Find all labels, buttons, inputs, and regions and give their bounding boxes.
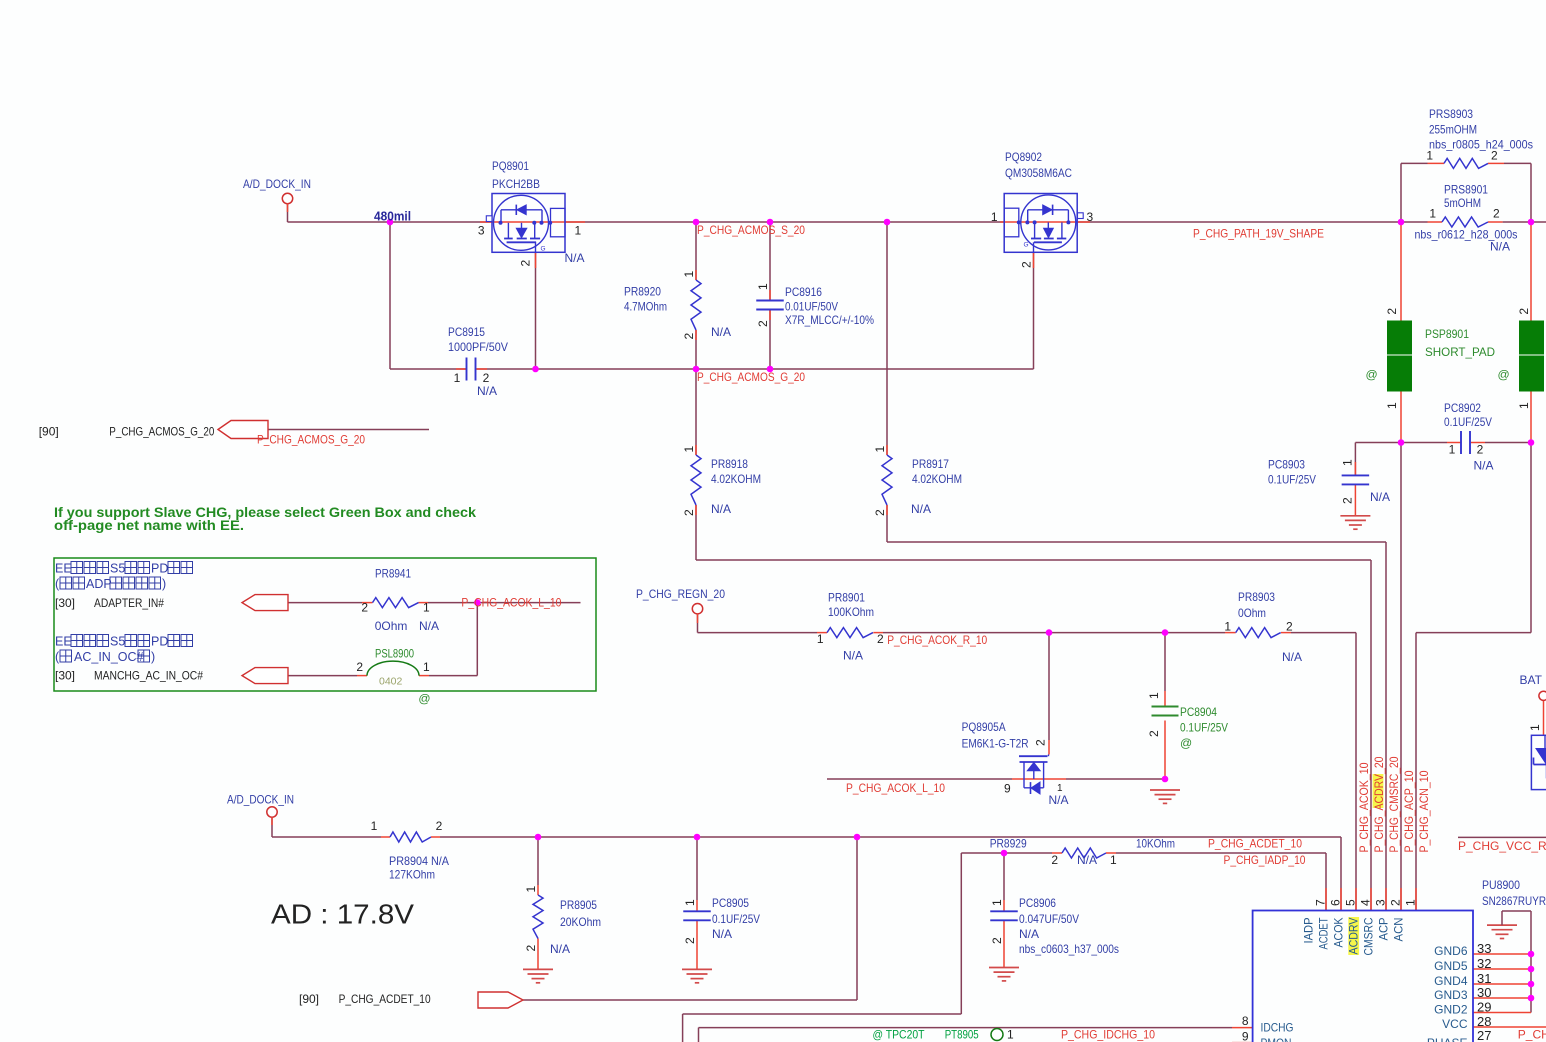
svg-text:5: 5 [1344,899,1358,906]
svg-text:2: 2 [436,819,443,833]
resistor PR8941 [373,598,419,608]
svg-text:PR8901: PR8901 [828,591,865,605]
svg-text:ACDRV: ACDRV [1347,918,1361,955]
ground [989,967,1019,969]
svg-text:PRS8901: PRS8901 [1444,183,1488,197]
pin stubs PR8904 [381,836,390,838]
svg-text:GND2: GND2 [1434,1003,1468,1017]
svg-text:[90]: [90] [39,425,59,439]
wire PSP8901 right pin (red) [1530,222,1532,321]
highlight ACDRV [1373,774,1384,808]
wire PR8918 bottom to ACDRV [695,505,697,560]
svg-text:1: 1 [423,660,430,674]
svg-text:0.047UF/50V: 0.047UF/50V [1019,912,1079,926]
ground [1150,789,1180,791]
wire P_CHG_ACOK_L_10 horizontal [827,778,1012,780]
svg-text:N/A: N/A [1049,793,1069,807]
svg-text:ADP: ADP [86,577,112,591]
svg-text:1: 1 [1517,402,1531,409]
svg-text:1000PF/50V: 1000PF/50V [448,340,508,354]
svg-text:PC8906: PC8906 [1019,896,1056,910]
svg-text:PD: PD [151,635,168,649]
resistor PRS8903 [1444,158,1488,168]
svg-text:2: 2 [1341,497,1355,504]
svg-text:2: 2 [756,320,770,327]
svg-text:): ) [151,650,155,664]
svg-text:PR8929: PR8929 [990,837,1027,851]
wire P_CHG_ACOK_R_10 [698,632,818,634]
pin stubs PC8906 [1003,900,1005,911]
svg-text:1: 1 [1404,899,1418,906]
svg-text:20KOhm: 20KOhm [560,915,601,929]
wire ACDET offpage riser [856,837,858,1000]
svg-text:PR8904 N/A: PR8904 N/A [389,854,449,868]
svg-text:N/A: N/A [712,927,732,941]
svg-text:IADP: IADP [1302,918,1316,944]
svg-text:P_CHG_ACOK_L_10: P_CHG_ACOK_L_10 [461,596,561,610]
svg-text:1: 1 [575,223,582,237]
pin stubs PR8929 [1052,852,1062,854]
svg-text:2: 2 [1286,620,1293,634]
wire PR8920 branch bottom [695,330,697,369]
svg-text:GND3: GND3 [1434,988,1468,1002]
svg-text:1: 1 [682,446,696,453]
svg-text:2: 2 [682,333,696,340]
wire P_CHG_ACMOS_G_20 horizontal [390,368,467,370]
svg-text:N/A: N/A [1019,927,1039,941]
pin stubs PU8900 right pins [1473,953,1531,955]
svg-text:EE: EE [55,562,72,576]
svg-text:0.1UF/25V: 0.1UF/25V [1444,415,1492,429]
svg-text:nbs_c0603_h37_000s: nbs_c0603_h37_000s [1019,942,1119,956]
capacitor PC8902 [1460,431,1462,454]
wire ADAPTER_IN# to PR8941 [288,602,362,604]
svg-text:PMON: PMON [1261,1036,1292,1042]
svg-text:28: 28 [1477,1014,1491,1029]
svg-text:2: 2 [1034,739,1048,746]
wire PR8905 branch [537,837,539,885]
svg-text:N/A: N/A [1370,490,1390,504]
svg-text:GND6: GND6 [1434,944,1468,958]
svg-text:N/A: N/A [1282,650,1302,664]
svg-text:1: 1 [817,632,824,646]
capacitor PC8903 [1342,474,1370,476]
svg-text:PQ8901: PQ8901 [492,159,529,173]
svg-text:1: 1 [991,210,998,224]
svg-text:[90]: [90] [299,992,319,1006]
svg-text:0402: 0402 [379,676,403,688]
svg-text:1: 1 [1341,459,1355,466]
svg-text:2: 2 [873,509,887,516]
svg-text:PR8917: PR8917 [912,457,949,471]
svg-text:QM3058M6AC: QM3058M6AC [1005,166,1072,180]
svg-text:2: 2 [1385,308,1399,315]
svg-text:@: @ [1180,736,1192,750]
svg-text:P_CHG_ACMOS_G_20: P_CHG_ACMOS_G_20 [697,370,805,384]
svg-text:PQ8902: PQ8902 [1005,150,1042,164]
svg-text:PHASE: PHASE [1427,1036,1468,1042]
pin stubs PC8902 [1447,442,1461,444]
svg-text:32: 32 [1477,956,1491,971]
svg-text:PSL8900: PSL8900 [375,647,414,661]
svg-text:1: 1 [682,271,696,278]
pin stub PQ8902 gate [1033,252,1035,268]
svg-text:29: 29 [1477,1000,1491,1015]
svg-text:P_CHG_ACMOS_S_20: P_CHG_ACMOS_S_20 [697,223,805,237]
svg-text:PU8900: PU8900 [1482,878,1520,892]
wire [271,817,273,837]
svg-text:9: 9 [1004,781,1011,795]
svg-text:PC8905: PC8905 [712,896,749,910]
svg-text:PC8915: PC8915 [448,325,485,339]
pin stubs PSL8900 [357,675,367,677]
svg-text:P_CHG_ACMOS_G_20: P_CHG_ACMOS_G_20 [109,425,214,439]
pin stubs PU8900 top pins [1325,888,1327,911]
svg-text:1: 1 [1110,853,1117,867]
svg-text:1: 1 [423,601,430,615]
capacitor PC8916 [756,300,784,302]
svg-text:1: 1 [990,899,1004,906]
wire ACDET vertical to pin6 [1340,837,1342,911]
svg-text:CMSRC: CMSRC [1362,917,1376,955]
svg-text:2: 2 [1491,149,1498,163]
svg-text:1: 1 [873,446,887,453]
svg-text:EE: EE [55,635,72,649]
pin stubs PRS8901 [1428,221,1443,223]
svg-text:X7R_MLCC/+/-10%: X7R_MLCC/+/-10% [785,313,874,327]
junction dots [387,219,394,226]
svg-text:P_CHG_ACN_10: P_CHG_ACN_10 [1417,770,1431,852]
svg-text:2: 2 [361,601,368,615]
svg-text:1: 1 [1385,402,1399,409]
resistor PR8917 [882,455,892,505]
svg-text:IDCHG: IDCHG [1261,1021,1294,1035]
pin stub PQ8901 source/drain [480,221,585,223]
svg-text:N/A: N/A [565,251,585,265]
capacitor PC8906 [990,910,1018,912]
svg-text:off-page net name with EE.: off-page net name with EE. [54,518,244,534]
svg-text:5mOHM: 5mOHM [1444,196,1481,210]
svg-text:PKCH2BB: PKCH2BB [492,177,540,191]
svg-text:PT8905: PT8905 [945,1028,979,1042]
svg-text:127KOhm: 127KOhm [389,868,435,882]
pin stubs PR8903 [1225,632,1236,634]
svg-text:PQ8905A: PQ8905A [962,720,1006,734]
ground [1487,924,1517,926]
pin stubs PR8918 [695,445,697,455]
svg-text:@ TPC20T: @ TPC20T [873,1028,926,1042]
wire PC8916 branch top [769,222,771,301]
svg-text:0.1UF/25V: 0.1UF/25V [1268,473,1316,487]
svg-text:GND4: GND4 [1434,974,1468,988]
svg-text:PR8941: PR8941 [375,567,411,581]
capacitor PC8904 [1152,707,1179,716]
svg-text:N/A: N/A [911,502,931,516]
wire PC8904 branch [1164,633,1166,691]
svg-text:480mil: 480mil [374,210,411,224]
svg-text:2: 2 [1493,207,1500,221]
svg-text:P_CHG_REGN_20: P_CHG_REGN_20 [636,587,725,601]
wire [477,368,1034,370]
svg-text:1: 1 [756,283,770,290]
wire PRS8903 branch loop [1400,163,1402,222]
transistor PQ8902 [1004,194,1083,253]
wire PC8916 branch bottom [769,310,771,370]
wire P_CHG_VCC_R net stub [1458,836,1546,838]
svg-text:P_CHG_CMSRC_20: P_CHG_CMSRC_20 [1387,756,1401,852]
svg-text:ACOK: ACOK [1332,918,1346,948]
svg-text:[30]: [30] [55,669,75,683]
svg-text:9: 9 [1242,1029,1249,1042]
svg-text:2: 2 [483,371,490,385]
svg-text:AD : 17.8V: AD : 17.8V [271,899,415,930]
svg-text:1: 1 [1528,724,1542,731]
wire [1503,221,1546,223]
pin stubs PC8904 [1164,691,1166,706]
svg-text:PC8916: PC8916 [785,285,822,299]
svg-text:1: 1 [1224,620,1231,634]
svg-text:PSP8901: PSP8901 [1425,327,1469,341]
svg-text:SHORT_PAD: SHORT_PAD [1425,345,1495,359]
svg-text:P_CHG: P_CHG [1518,1028,1546,1042]
svg-text:EM6K1-G-T2R: EM6K1-G-T2R [962,737,1029,751]
node BAT [1539,691,1546,700]
pin stub A/D_DOCK bottom [271,817,273,825]
svg-text:3: 3 [1087,210,1094,224]
svg-text:PC8902: PC8902 [1444,401,1481,415]
wire PQ8901 gate drop [535,252,537,369]
svg-text:2: 2 [1517,308,1531,315]
svg-text:2: 2 [1477,443,1484,457]
pin stubs PRS8903 [1428,162,1445,164]
wire ACMOS_G_20 offpage stub [268,429,429,431]
svg-text:ACN: ACN [1392,918,1406,942]
svg-text:@: @ [418,692,430,706]
svg-text:[30]: [30] [55,596,75,610]
wire P_CHG_IADP_10 riser [960,853,962,1014]
svg-text:0.01UF/50V: 0.01UF/50V [785,300,838,314]
svg-text:PC8904: PC8904 [1180,705,1217,719]
pin stub PU8900 pin8 [1232,1027,1253,1029]
wire P_CHG_IADP_10 horizontal [961,852,1052,854]
svg-text:4.02KOHM: 4.02KOHM [711,472,761,486]
svg-text:P_CHG_IADP_10: P_CHG_IADP_10 [1224,853,1306,867]
svg-text:ACP: ACP [1377,918,1391,941]
svg-text:0.1UF/25V: 0.1UF/25V [1180,721,1228,735]
wire MANCHG to PSL8900 [288,675,357,677]
svg-text:P_CHG_ACOK_10: P_CHG_ACOK_10 [1357,762,1371,852]
svg-text:PR8905: PR8905 [560,898,597,912]
svg-text:PRS8903: PRS8903 [1429,107,1473,121]
svg-text:3: 3 [478,223,485,237]
resistor PR8901 [827,628,873,638]
svg-text:4.02KOHM: 4.02KOHM [912,472,962,486]
svg-text:1: 1 [1007,1028,1014,1042]
svg-text:1: 1 [1449,443,1456,457]
svg-text:2: 2 [519,260,533,267]
svg-text:4.7MOhm: 4.7MOhm [624,300,667,314]
diode D-BAT [1531,735,1546,789]
wire P_CHG_ACDET/input main top y=222 [288,221,493,223]
svg-text:P_CHG_IDCHG_10: P_CHG_IDCHG_10 [1061,1028,1155,1042]
svg-text:PR8920: PR8920 [624,285,661,299]
svg-text:): ) [162,577,166,591]
svg-text:GND5: GND5 [1434,959,1468,973]
wire right pad down to ACN [1530,443,1532,633]
pin stubs PR8905 [537,885,539,895]
svg-text:33: 33 [1477,941,1491,956]
svg-text:N/A: N/A [550,942,570,956]
wire branch at 480mil junction down [389,222,391,369]
svg-text:2: 2 [683,937,697,944]
svg-text:P_CHG_ACOK_R_10: P_CHG_ACOK_R_10 [887,633,987,647]
svg-text:1: 1 [1429,207,1436,221]
wire PC8903 link [1355,442,1401,444]
pin stub REGN circle [697,614,699,624]
short pad PSP8901 left [1388,321,1412,354]
wire PR8941 pin1 net [428,602,581,604]
wire PC8905 branch [696,837,698,900]
svg-text:0Ohm: 0Ohm [1238,606,1266,620]
wire PR8918 branch [695,369,697,455]
node A/D_DOCK_IN (bottom) [267,807,277,817]
svg-text:P_CHG_VCC_R_36: P_CHG_VCC_R_36 [1458,839,1546,853]
pin stubs PC8903 [1354,462,1356,475]
wire PSL8900 pin1 up to junction [429,675,477,677]
svg-text:P_CHG_PATH_19V_SHAPE: P_CHG_PATH_19V_SHAPE [1193,227,1324,241]
svg-text:1: 1 [1147,692,1161,699]
wire PC8906 branch [1003,853,1005,900]
svg-text:A/D_DOCK_IN: A/D_DOCK_IN [227,793,294,807]
svg-text:N/A: N/A [843,649,863,663]
wire to PQ8905A pin2 [1048,633,1050,740]
svg-text:1: 1 [683,899,697,906]
svg-text:N/A: N/A [711,325,731,339]
svg-text:0.1UF/25V: 0.1UF/25V [712,912,760,926]
svg-text:2: 2 [877,632,884,646]
svg-text:P_CHG_ACDET_10: P_CHG_ACDET_10 [339,992,431,1006]
svg-text:N/A: N/A [1490,240,1510,254]
svg-text:N/A: N/A [477,384,497,398]
pin stub PQ8901 gate [535,252,537,268]
pin stub PQ8902 [1000,221,1090,223]
resistor PR8918 [691,455,701,505]
wire PR8920 branch top [695,222,697,280]
wire IADP vertical to pin7 [1325,853,1327,911]
svg-text:PR8918: PR8918 [711,457,748,471]
ground [682,968,712,970]
ground [523,968,553,970]
svg-text:SN2867RUYR: SN2867RUYR [1482,894,1546,908]
wire PQ8902 gate drop [1033,252,1035,369]
pin stubs PR8941 [362,602,373,604]
wire P_CHG_ACDET_10 main [440,836,1341,838]
resistor PRS8901 [1442,217,1488,227]
capacitor PC8915 [466,358,468,381]
svg-text:2: 2 [1051,853,1058,867]
svg-text:N/A: N/A [1077,853,1097,867]
svg-text:G: G [1024,242,1029,249]
svg-text:2: 2 [524,945,538,952]
svg-text:27: 27 [1477,1028,1491,1042]
svg-text:G: G [541,246,546,253]
wire ACOK vertical to pin5 [1355,633,1357,911]
svg-text:1: 1 [454,371,461,385]
svg-text:8: 8 [1242,1014,1249,1028]
svg-text:255mOHM: 255mOHM [1429,123,1477,137]
wire ACP vertical to pin2 [1400,443,1402,911]
pin stub BAT [1543,700,1545,735]
svg-text:1: 1 [524,886,538,893]
svg-text:A/D_DOCK_IN: A/D_DOCK_IN [243,177,311,191]
pin stubs PC8915 [456,368,467,370]
svg-text:2: 2 [1020,261,1034,268]
svg-text:ADAPTER_IN#: ADAPTER_IN# [94,596,164,610]
pin stubs PC8905 [696,900,698,911]
svg-text:2: 2 [1389,899,1403,906]
short pad PSP8901 right [1520,321,1544,354]
svg-text:P_CHG_ACP_10: P_CHG_ACP_10 [1402,770,1416,852]
resistor PR8904 [390,832,431,842]
wire PSP8901 left pin (red) [1400,222,1402,321]
svg-text:@: @ [1366,368,1378,382]
wire P_CHG_IDCHG_10 to pin8 [698,1028,700,1042]
svg-text:@: @ [1498,368,1510,382]
svg-text:0Ohm: 0Ohm [375,619,408,633]
svg-text:3: 3 [1374,899,1388,906]
svg-text:2: 2 [356,660,363,674]
svg-text:ACDET: ACDET [1317,917,1331,950]
svg-text:4: 4 [1359,899,1373,906]
svg-text:S5: S5 [110,635,125,649]
green selection box [54,558,596,691]
op-amp U1 IC PU8900 body [1253,911,1473,1042]
svg-text:BAT: BAT [1520,673,1543,687]
pin stub VCC pin28 [1473,1026,1546,1028]
wire PR8917 bottom to CMSRC [886,505,888,542]
svg-text:2: 2 [682,509,696,516]
svg-text:P_CHG_ACDRV_20: P_CHG_ACDRV_20 [1372,756,1386,852]
wire P_CHG_PATH_19V_SHAPE [1077,221,1427,223]
svg-text:VCC: VCC [1442,1017,1468,1031]
node P_CHG_REGN_20 [692,604,702,614]
svg-text:10KOhm: 10KOhm [1136,837,1175,851]
svg-text:31: 31 [1477,971,1491,986]
svg-text:S5: S5 [110,562,125,576]
svg-text:30: 30 [1477,985,1491,1000]
svg-text:P_CHG_ACMOS_G_20: P_CHG_ACMOS_G_20 [257,433,365,447]
capacitor PC8905 [683,910,711,912]
pin stub [287,203,289,212]
pin stubs PC8916 [769,290,771,301]
svg-text:P_CHG_ACDET_10: P_CHG_ACDET_10 [1208,837,1302,851]
wire PC8902 link [1401,442,1447,444]
wire PU8900 gnd link [1502,910,1531,912]
pin stubs PR8920 [695,270,697,280]
node A/D_DOCK_IN (top) [282,193,292,203]
transistor PQ8901 [486,194,565,253]
highlight ACDRV pin name [1348,917,1359,955]
svg-text:PD: PD [151,562,168,576]
resistor PR8920 [691,280,701,330]
wire PR8917 branch top [886,222,888,455]
svg-text:N/A: N/A [711,502,731,516]
wire [287,203,289,222]
svg-text:N/A: N/A [1474,459,1494,473]
svg-text:P_CHG_ACOK_L_10: P_CHG_ACOK_L_10 [846,781,945,795]
svg-text:2: 2 [1147,730,1161,737]
svg-text:6: 6 [1329,899,1343,906]
